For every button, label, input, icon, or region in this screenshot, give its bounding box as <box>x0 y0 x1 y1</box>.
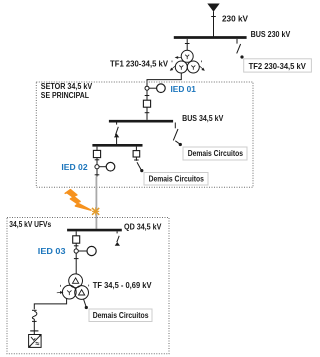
grid source triangle 230 kV <box>207 4 219 12</box>
breaker square bay IED02 <box>93 150 100 157</box>
wire bus to TF1 <box>185 39 190 51</box>
wire bus to breaker bay demais 2 <box>135 147 137 151</box>
wire node to transformer TF <box>74 253 79 274</box>
disconnect switch right QD <box>116 231 120 245</box>
svg-text:Demais Circuitos: Demais Circuitos <box>93 311 149 320</box>
label 34,5 kV UFVs <box>9 220 51 229</box>
wire and switch to demais circuitos 2 <box>134 157 142 171</box>
label box Demais Circuitos 3 <box>89 309 152 322</box>
fault lightning bolt <box>65 190 91 211</box>
svg-text:230 kV: 230 kV <box>222 14 248 24</box>
leader dot TF2 <box>240 55 243 58</box>
TF1 tap arrows <box>170 57 204 71</box>
node IED03 tap <box>74 249 78 253</box>
svg-text:QD 34,5 kV: QD 34,5 kV <box>124 222 162 231</box>
bus QD 34,5 kV <box>67 229 122 232</box>
wire node to IED02 <box>99 166 106 168</box>
IED 01 device circle <box>157 84 166 93</box>
node IED02 tap <box>95 165 99 169</box>
leader dot demais circuitos 1 <box>179 143 182 146</box>
svg-text:34,5 kV UFVs: 34,5 kV UFVs <box>9 220 51 229</box>
wire below node IED02 <box>95 169 100 177</box>
svg-text:BUS 230 kV: BUS 230 kV <box>251 30 291 39</box>
svg-text:Demais Circuitos: Demais Circuitos <box>188 149 244 158</box>
label IED 03 <box>38 246 66 256</box>
label 230 kV <box>222 14 248 24</box>
node IED01 tap <box>145 86 149 90</box>
wire node to breaker <box>145 90 150 100</box>
leader TF to demais circuitos 3 <box>84 299 88 309</box>
svg-text:TF2 230-34,5 kV: TF2 230-34,5 kV <box>249 62 307 71</box>
wire node to IED03 <box>78 250 87 252</box>
label box Demais Circuitos 2 <box>144 173 208 186</box>
wire from source to BUS 230 kV <box>211 12 216 37</box>
svg-text:IED 01: IED 01 <box>171 84 197 94</box>
label SETOR 34,5 kV <box>41 82 93 91</box>
label BUS 34,5 kV <box>182 114 224 123</box>
IED 03 device circle <box>87 246 96 255</box>
label box Demais Circuitos 1 <box>183 147 247 160</box>
label IED 02 <box>61 162 87 172</box>
inverter box <box>29 334 42 347</box>
svg-text:IED 03: IED 03 <box>38 246 66 256</box>
label SE PRINCIPAL <box>41 91 89 100</box>
breaker square bay IED03 <box>73 236 80 243</box>
wire node to IED01 <box>149 87 157 89</box>
label BUS 230 kV <box>251 30 291 39</box>
bus BUS 34,5 kV <box>109 120 173 123</box>
label IED 01 <box>171 84 197 94</box>
tick above inverter <box>30 331 38 335</box>
label box TF2 230-34,5 kV <box>244 59 312 72</box>
dashed box 34,5 kV UFVs <box>7 218 169 354</box>
svg-text:SETOR 34,5 kV: SETOR 34,5 kV <box>41 82 93 91</box>
transformer TF 34,5-0,69 kV three-winding <box>62 274 88 300</box>
svg-text:IED 02: IED 02 <box>61 162 87 172</box>
gray feeder wire to QD bus <box>95 177 97 229</box>
breaker square bay demais 2 <box>133 151 140 157</box>
transformer TF1 three-winding <box>175 50 199 73</box>
svg-text:BUS 34,5 kV: BUS 34,5 kV <box>182 114 224 123</box>
wire breaker to BUS 34,5 kV <box>145 107 150 120</box>
svg-text:Demais Circuitos: Demais Circuitos <box>149 174 205 183</box>
dashed box SETOR 34,5 kV SE PRINCIPAL <box>36 82 253 187</box>
breaker square QF bay 1 <box>143 100 150 107</box>
wire TF to inverter branch <box>32 298 67 310</box>
disconnect switch left feeder <box>115 123 118 145</box>
label QD 34,5 kV <box>124 222 162 231</box>
label TF1 230-34,5 kV <box>110 59 168 68</box>
wire breaker to node IED03 <box>74 243 79 249</box>
svg-text:TF 34,5 - 0,69 kV: TF 34,5 - 0,69 kV <box>93 281 152 290</box>
disconnect switch to TF2 <box>237 39 241 54</box>
svg-text:TF1 230-34,5 kV: TF1 230-34,5 kV <box>110 59 168 68</box>
svg-text:SE PRINCIPAL: SE PRINCIPAL <box>41 91 89 100</box>
label TF 34,5 - 0,69 kV <box>93 281 152 290</box>
leader dot demais circuitos 2 <box>140 169 143 172</box>
bus secondary 34,5 kV <box>92 144 142 147</box>
IED 02 device circle <box>106 162 115 171</box>
fault X marker <box>92 207 99 215</box>
wire breaker to node IED02 <box>95 158 100 165</box>
bus BUS 230 kV <box>174 36 247 39</box>
disconnect tick lower <box>32 319 37 331</box>
wire bus to breaker bay IED02 <box>96 147 98 151</box>
wire bus to breaker bay IED03 <box>75 231 77 235</box>
flexible cable squiggle <box>32 311 37 319</box>
TF tap arrows <box>57 285 89 294</box>
disconnect switch right feeder <box>173 123 180 145</box>
wire TF1 to IED01 bay <box>147 73 181 86</box>
